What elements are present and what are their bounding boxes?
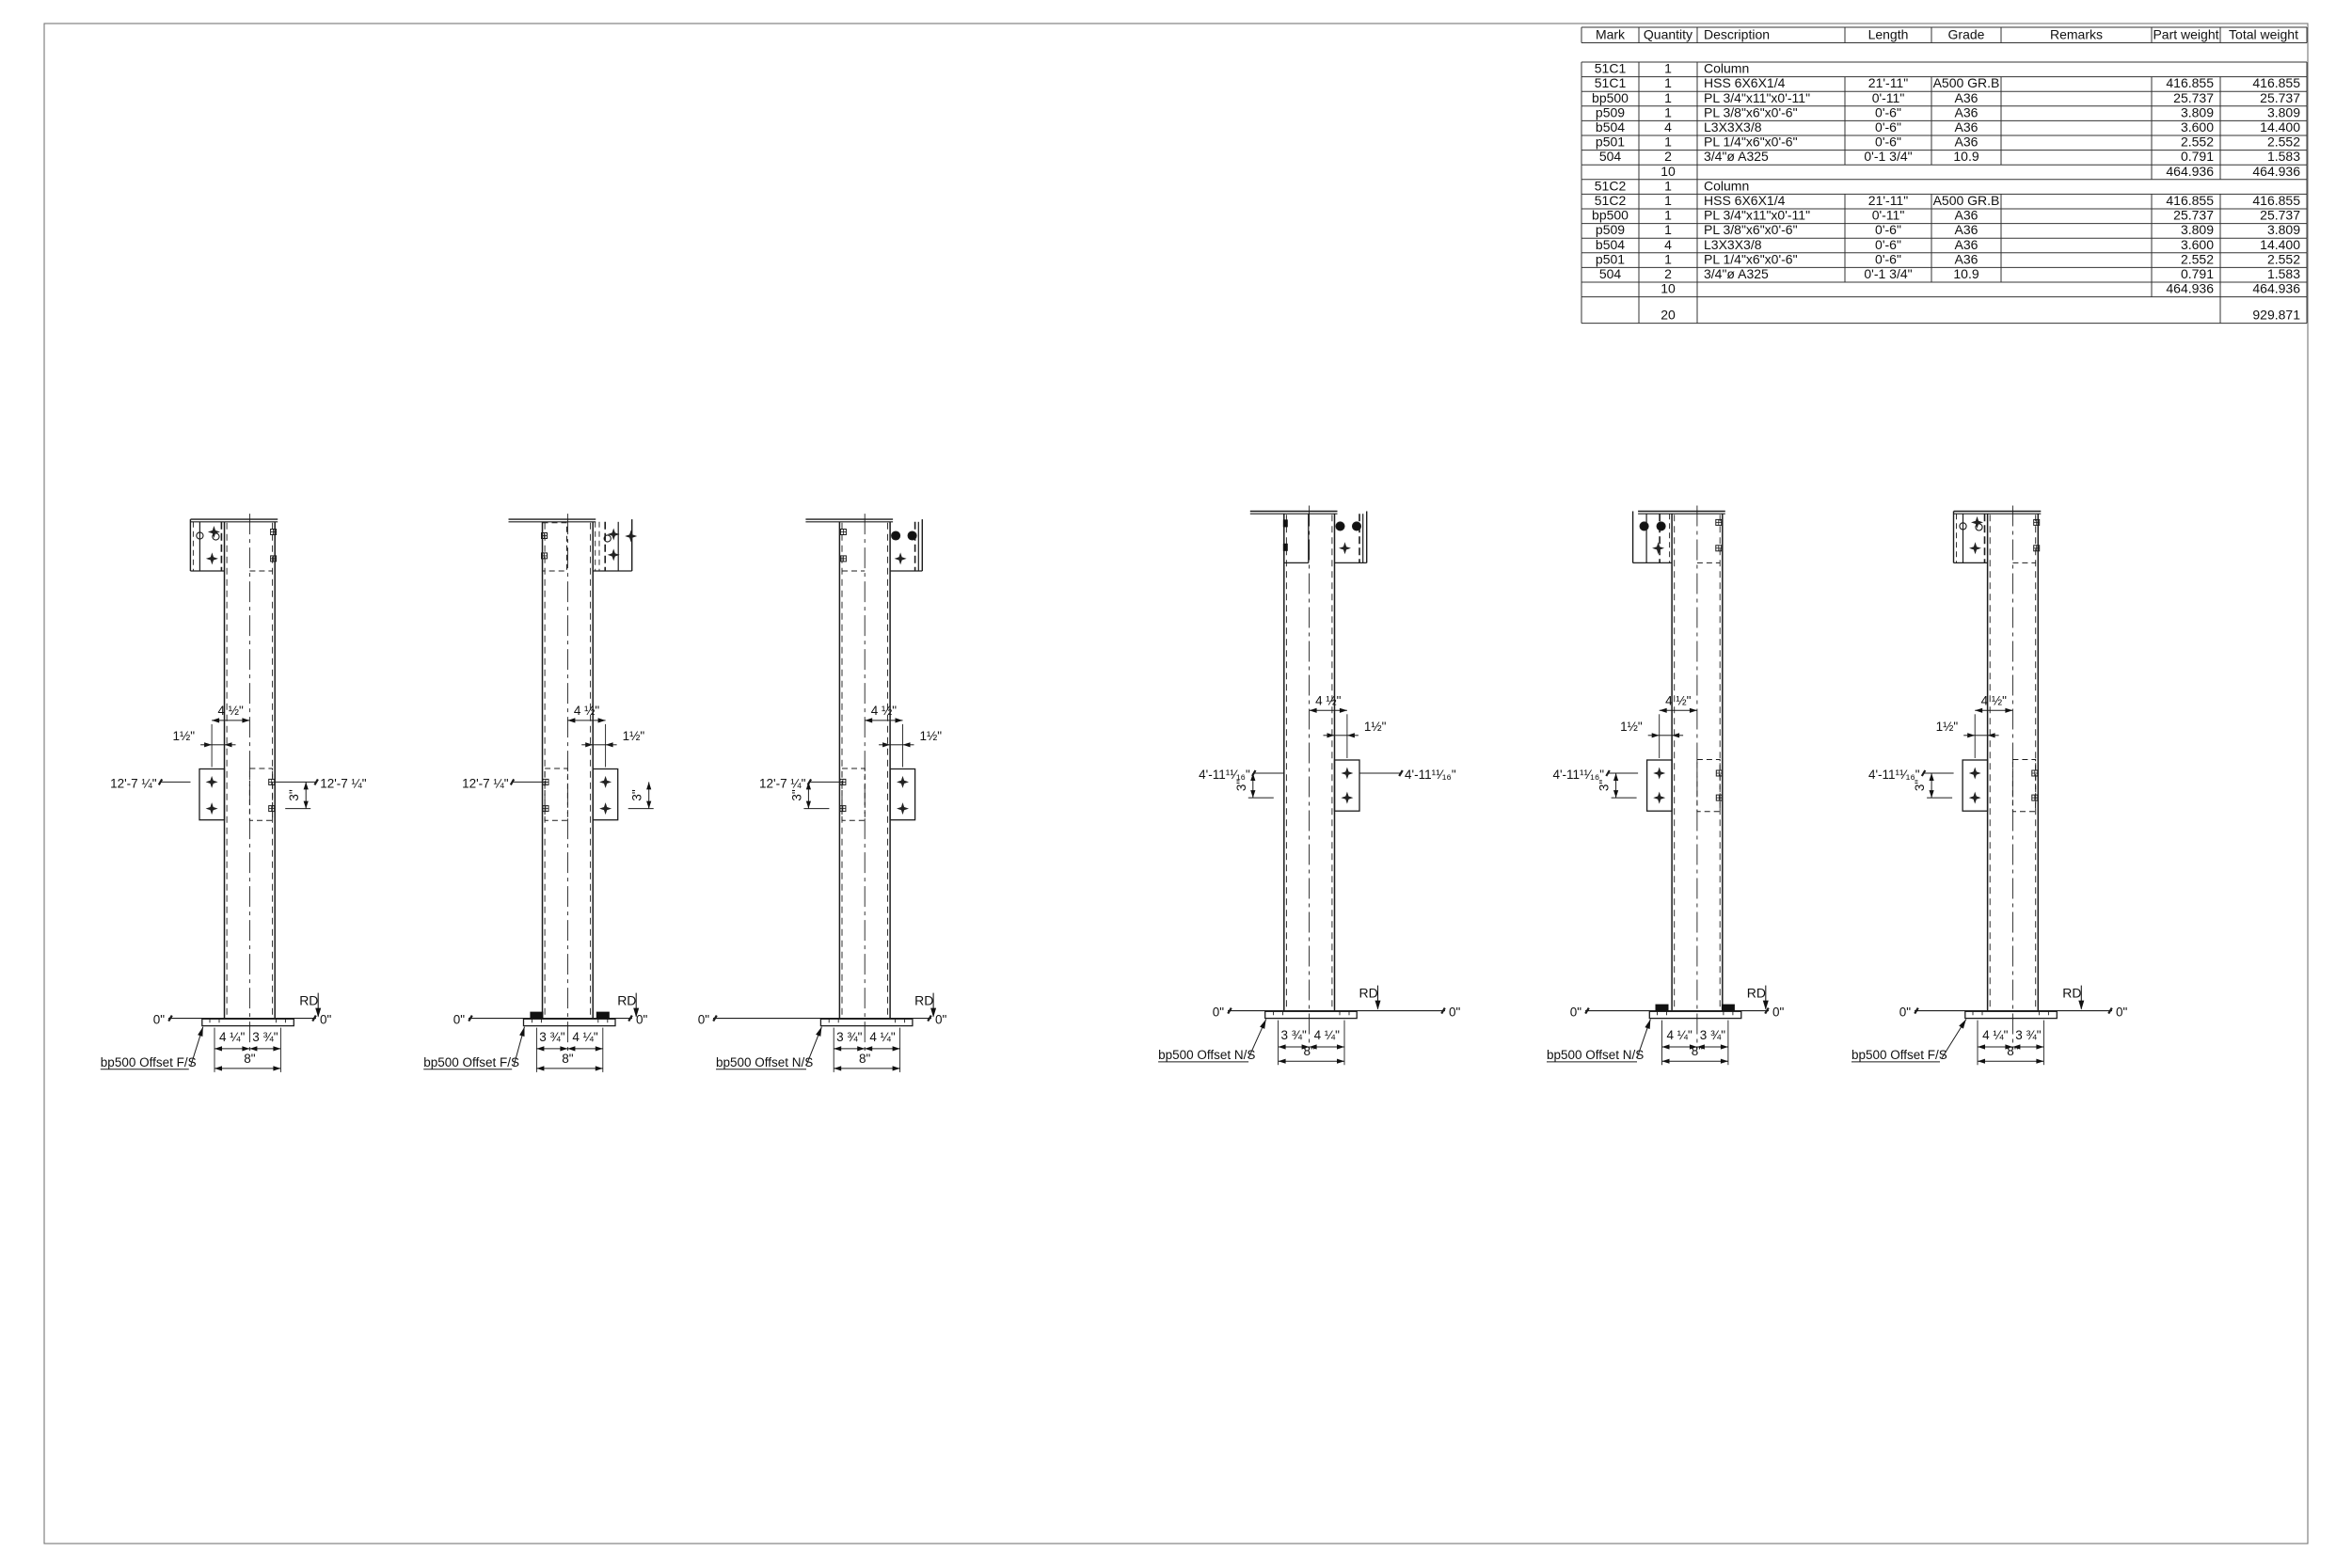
svg-text:RD: RD	[1359, 986, 1378, 1001]
svg-text:4'-11¹¹⁄₁₆": 4'-11¹¹⁄₁₆"	[1868, 768, 1920, 782]
svg-text:bp500: bp500	[1592, 208, 1629, 223]
svg-text:bp500 Offset N/S: bp500 Offset N/S	[716, 1055, 813, 1069]
svg-text:4 ½": 4 ½"	[1981, 693, 2008, 707]
svg-text:12'-7 ¼": 12'-7 ¼"	[320, 776, 367, 790]
svg-text:A36: A36	[1955, 222, 1979, 237]
svg-text:1: 1	[1664, 61, 1672, 76]
svg-text:14.400: 14.400	[2260, 237, 2300, 252]
svg-text:51C1: 51C1	[1595, 61, 1627, 76]
svg-text:51C2: 51C2	[1595, 178, 1627, 193]
column centerline	[2011, 506, 2013, 1049]
column centerline	[248, 514, 250, 1056]
svg-text:Remarks: Remarks	[2050, 27, 2103, 42]
svg-text:0.791: 0.791	[2181, 149, 2214, 164]
svg-text:4'-11¹¹⁄₁₆": 4'-11¹¹⁄₁₆"	[1552, 768, 1604, 782]
svg-text:A36: A36	[1955, 208, 1979, 223]
svg-text:p509: p509	[1596, 222, 1625, 237]
svg-text:PL 3/8"x6"x0'-6": PL 3/8"x6"x0'-6"	[1704, 104, 1798, 119]
svg-text:Length: Length	[1868, 27, 1909, 42]
svg-text:0": 0"	[636, 1013, 648, 1027]
svg-text:1½": 1½"	[623, 729, 645, 743]
svg-text:Quantity: Quantity	[1644, 27, 1692, 42]
svg-text:4 ½": 4 ½"	[1665, 693, 1692, 707]
b504 mid connection plates (51C2 South view (1 x South))	[1963, 760, 1988, 811]
svg-text:L3X3X3/8: L3X3X3/8	[1704, 119, 1762, 135]
svg-text:3": 3"	[789, 789, 803, 801]
svg-text:2.552: 2.552	[2181, 135, 2214, 150]
b504 mid connection plates (51C2 North view (1 x North))	[1335, 760, 1360, 811]
svg-text:3.809: 3.809	[2181, 222, 2214, 237]
svg-text:bp500 Offset F/S: bp500 Offset F/S	[423, 1055, 519, 1069]
svg-text:RD: RD	[617, 993, 636, 1008]
svg-text:Grade: Grade	[1948, 27, 1985, 42]
svg-text:1: 1	[1664, 222, 1672, 237]
svg-text:1.583: 1.583	[2267, 149, 2300, 164]
svg-text:3 ¾": 3 ¾"	[836, 1030, 863, 1044]
dimension 3" mid	[807, 782, 809, 808]
svg-text:RD: RD	[2062, 986, 2081, 1001]
svg-text:p509: p509	[1596, 104, 1625, 119]
p501 cap plate edge	[1638, 511, 1725, 513]
svg-text:416.855: 416.855	[2252, 193, 2300, 208]
dimension 1 1/2" mid	[890, 744, 902, 746]
dimension 4 1/2" mid	[1310, 709, 1347, 711]
svg-text:PL 1/4"x6"x0'-6": PL 1/4"x6"x0'-6"	[1704, 135, 1798, 150]
svg-text:A500 GR.B: A500 GR.B	[1933, 75, 2000, 90]
base plate dimensions	[1977, 1021, 1979, 1066]
svg-text:bp500 Offset F/S: bp500 Offset F/S	[101, 1055, 197, 1069]
svg-text:0": 0"	[2116, 1006, 2128, 1020]
column centerline	[566, 514, 568, 1056]
b504 mid connection plates (51C1 West view (1 x West))	[593, 769, 618, 820]
svg-text:464.936: 464.936	[2166, 164, 2214, 179]
svg-text:12'-7 ¼": 12'-7 ¼"	[759, 776, 806, 790]
svg-text:4: 4	[1664, 119, 1672, 135]
svg-text:Column: Column	[1704, 61, 1749, 76]
svg-text:20: 20	[1661, 308, 1676, 323]
base plate dimensions	[1661, 1021, 1663, 1066]
b504 / p509 top connection plates (51C2 South view (1 x South))	[1953, 512, 1955, 563]
dimension 3" mid	[1615, 773, 1617, 798]
svg-text:4 ½": 4 ½"	[871, 704, 898, 718]
bp500 base plate (51C2 West view (1 x West))	[1585, 1010, 1769, 1012]
svg-text:A36: A36	[1955, 119, 1979, 135]
svg-text:8": 8"	[562, 1052, 574, 1066]
dimension 1 1/2" mid	[212, 744, 224, 746]
column 51C2 West view (1 x West) HSS 6X6X1/4 elevation	[1671, 514, 1673, 1010]
svg-text:1: 1	[1664, 251, 1672, 266]
svg-text:A36: A36	[1955, 251, 1979, 266]
svg-text:4 ½": 4 ½"	[1315, 693, 1342, 707]
b504 mid connection plates (51C2 West view (1 x West))	[1647, 760, 1673, 811]
dimension 4 1/2" mid	[1975, 709, 2012, 711]
elevation label mid left	[161, 781, 191, 783]
svg-text:RD: RD	[1747, 986, 1766, 1001]
svg-text:1: 1	[1664, 90, 1672, 105]
b504 mid connection plates (51C1 North view (1 x North))	[199, 769, 225, 820]
p501 cap plate edge	[805, 518, 893, 520]
svg-text:p501: p501	[1596, 251, 1625, 266]
svg-text:p501: p501	[1596, 135, 1625, 150]
svg-text:0'-6": 0'-6"	[1875, 135, 1901, 150]
svg-text:10: 10	[1661, 164, 1676, 179]
svg-text:0'-6": 0'-6"	[1875, 222, 1901, 237]
svg-text:RD: RD	[299, 993, 318, 1008]
svg-text:1: 1	[1664, 193, 1672, 208]
svg-text:416.855: 416.855	[2166, 193, 2214, 208]
svg-text:3": 3"	[1913, 780, 1927, 792]
bp500 base plate (51C1 South view (1 x South))	[713, 1018, 931, 1020]
svg-text:0'-11": 0'-11"	[1872, 90, 1905, 105]
svg-text:464.936: 464.936	[2252, 164, 2300, 179]
svg-text:HSS 6X6X1/4: HSS 6X6X1/4	[1704, 75, 1786, 90]
dimension 3" mid	[1931, 773, 1932, 798]
svg-text:3 ¾": 3 ¾"	[252, 1030, 278, 1044]
column 51C1 South view (1 x South) HSS 6X6X1/4 elevation	[838, 522, 840, 1019]
svg-text:3": 3"	[1234, 780, 1248, 792]
svg-text:A36: A36	[1955, 104, 1979, 119]
svg-text:2: 2	[1664, 266, 1672, 281]
svg-text:Description: Description	[1704, 27, 1770, 42]
svg-text:3.600: 3.600	[2181, 237, 2214, 252]
svg-text:25.737: 25.737	[2173, 208, 2214, 223]
svg-text:4 ¼": 4 ¼"	[219, 1030, 246, 1044]
svg-text:A500 GR.B: A500 GR.B	[1933, 193, 2000, 208]
svg-text:51C1: 51C1	[1595, 75, 1627, 90]
svg-text:bp500 Offset N/S: bp500 Offset N/S	[1547, 1048, 1644, 1062]
svg-text:A36: A36	[1955, 135, 1979, 150]
elevation label mid left	[1254, 772, 1284, 774]
svg-text:1: 1	[1664, 178, 1672, 193]
svg-text:3.809: 3.809	[2267, 104, 2300, 119]
bp500 base plate (51C2 North view (1 x North))	[1228, 1010, 1445, 1012]
dimension 4 1/2" mid	[212, 720, 249, 721]
svg-text:PL 3/4"x11"x0'-11": PL 3/4"x11"x0'-11"	[1704, 208, 1810, 223]
dimension 1 1/2" mid	[1660, 735, 1672, 736]
svg-text:8": 8"	[1303, 1044, 1315, 1058]
elevation label mid left	[1608, 772, 1638, 774]
svg-text:1½": 1½"	[1364, 720, 1387, 734]
svg-text:12'-7 ¼": 12'-7 ¼"	[462, 776, 509, 790]
svg-text:PL 3/4"x11"x0'-11": PL 3/4"x11"x0'-11"	[1704, 90, 1810, 105]
column centerline	[1696, 506, 1698, 1049]
svg-text:0'-6": 0'-6"	[1875, 119, 1901, 135]
svg-text:b504: b504	[1596, 237, 1625, 252]
svg-text:464.936: 464.936	[2166, 281, 2214, 296]
svg-text:2.552: 2.552	[2267, 251, 2300, 266]
svg-text:2.552: 2.552	[2267, 135, 2300, 150]
column 51C1 North view (1 x North) HSS 6X6X1/4 elevation	[224, 522, 226, 1019]
base plate dimensions	[535, 1028, 537, 1072]
svg-text:3": 3"	[287, 789, 301, 801]
b504 / p509 top connection plates (51C2 West view (1 x West))	[1632, 512, 1634, 563]
svg-text:1½": 1½"	[920, 729, 943, 743]
svg-text:0'-6": 0'-6"	[1875, 251, 1901, 266]
svg-text:464.936: 464.936	[2252, 281, 2300, 296]
svg-text:25.737: 25.737	[2260, 90, 2300, 105]
svg-text:3 ¾": 3 ¾"	[1280, 1028, 1307, 1042]
dimension 4 1/2" mid	[865, 720, 902, 721]
column centerline	[1309, 506, 1311, 1049]
svg-text:3 ¾": 3 ¾"	[2015, 1028, 2042, 1042]
svg-text:bp500 Offset N/S: bp500 Offset N/S	[1158, 1048, 1255, 1062]
svg-text:4'-11¹¹⁄₁₆": 4'-11¹¹⁄₁₆"	[1199, 768, 1250, 782]
column 51C2 North view (1 x North) HSS 6X6X1/4 elevation	[1283, 514, 1285, 1010]
column 51C1 West view (1 x West) HSS 6X6X1/4 elevation	[542, 522, 544, 1019]
b504 / p509 top connection plates (51C1 West view (1 x West))	[543, 523, 567, 571]
b504 / p509 top connection plates (51C2 North view (1 x North))	[1308, 514, 1310, 562]
svg-text:0": 0"	[1772, 1006, 1785, 1020]
svg-text:3.600: 3.600	[2181, 119, 2214, 135]
p501 cap plate edge	[1250, 511, 1338, 513]
svg-text:1: 1	[1664, 75, 1672, 90]
svg-text:3": 3"	[1597, 780, 1612, 792]
svg-text:4 ¼": 4 ¼"	[1982, 1028, 2009, 1042]
svg-text:3/4"ø A325: 3/4"ø A325	[1704, 266, 1769, 281]
svg-text:3/4"ø A325: 3/4"ø A325	[1704, 149, 1769, 164]
svg-text:10.9: 10.9	[1953, 149, 1979, 164]
svg-text:0": 0"	[153, 1013, 166, 1027]
svg-text:416.855: 416.855	[2166, 75, 2214, 90]
p501 cap plate edge	[191, 518, 278, 520]
svg-text:416.855: 416.855	[2252, 75, 2300, 90]
bill of materials table	[1581, 26, 2307, 28]
elevation label mid right	[275, 781, 316, 783]
dimension 1 1/2" mid	[593, 744, 605, 746]
svg-text:3.809: 3.809	[2181, 104, 2214, 119]
svg-text:8": 8"	[244, 1052, 256, 1066]
b504 mid connection plates (51C1 South view (1 x South))	[890, 769, 915, 820]
elevation label mid left	[513, 781, 543, 783]
p501 cap plate edge	[509, 518, 596, 520]
svg-text:4'-11¹¹⁄₁₆": 4'-11¹¹⁄₁₆"	[1405, 768, 1456, 782]
svg-text:14.400: 14.400	[2260, 119, 2300, 135]
base plate dimensions	[833, 1028, 834, 1072]
svg-text:4: 4	[1664, 237, 1672, 252]
svg-text:L3X3X3/8: L3X3X3/8	[1704, 237, 1762, 252]
svg-text:0": 0"	[935, 1013, 947, 1027]
svg-text:2: 2	[1664, 149, 1672, 164]
svg-text:0": 0"	[1570, 1006, 1582, 1020]
column centerline	[864, 514, 866, 1056]
svg-text:0": 0"	[453, 1013, 466, 1027]
bp500 base plate (51C2 South view (1 x South))	[1915, 1010, 2112, 1012]
base plate dimensions	[1278, 1021, 1279, 1066]
svg-text:25.737: 25.737	[2173, 90, 2214, 105]
svg-text:0": 0"	[320, 1013, 332, 1027]
dimension 1 1/2" mid	[1975, 735, 1987, 736]
svg-text:10: 10	[1661, 281, 1676, 296]
svg-text:51C2: 51C2	[1595, 193, 1627, 208]
svg-text:3": 3"	[630, 789, 644, 801]
svg-text:2.552: 2.552	[2181, 251, 2214, 266]
svg-text:4 ¼": 4 ¼"	[1314, 1028, 1341, 1042]
svg-text:0.791: 0.791	[2181, 266, 2214, 281]
svg-text:3 ¾": 3 ¾"	[539, 1030, 565, 1044]
svg-text:0'-6": 0'-6"	[1875, 237, 1901, 252]
svg-text:3.809: 3.809	[2267, 222, 2300, 237]
dimension 3" mid	[305, 782, 307, 808]
p501 cap plate edge	[1954, 511, 2042, 513]
svg-text:0": 0"	[1213, 1006, 1225, 1020]
svg-text:4 ½": 4 ½"	[218, 704, 245, 718]
base plate dimensions	[214, 1028, 215, 1072]
dimension 3" mid	[1252, 773, 1254, 798]
svg-text:1: 1	[1664, 135, 1672, 150]
svg-text:bp500 Offset F/S: bp500 Offset F/S	[1851, 1048, 1947, 1062]
svg-text:0'-1 3/4": 0'-1 3/4"	[1864, 266, 1912, 281]
svg-text:1½": 1½"	[1936, 720, 1959, 734]
svg-text:929.871: 929.871	[2252, 308, 2300, 323]
svg-text:4 ¼": 4 ¼"	[869, 1030, 896, 1044]
svg-text:12'-7 ¼": 12'-7 ¼"	[110, 776, 157, 790]
svg-text:bp500: bp500	[1592, 90, 1629, 105]
bp500 base plate (51C1 West view (1 x West))	[469, 1018, 632, 1020]
svg-text:A36: A36	[1955, 90, 1979, 105]
elevation label mid right	[1359, 772, 1401, 774]
svg-text:PL 3/8"x6"x0'-6": PL 3/8"x6"x0'-6"	[1704, 222, 1798, 237]
svg-text:1: 1	[1664, 208, 1672, 223]
svg-text:8": 8"	[2007, 1044, 2019, 1058]
svg-text:4 ¼": 4 ¼"	[1667, 1028, 1693, 1042]
elevation label mid left	[809, 781, 839, 783]
svg-text:0": 0"	[1449, 1006, 1461, 1020]
svg-text:504: 504	[1599, 149, 1622, 164]
svg-text:1.583: 1.583	[2267, 266, 2300, 281]
svg-text:Part weight: Part weight	[2153, 27, 2218, 42]
svg-text:Mark: Mark	[1596, 27, 1626, 42]
svg-text:1½": 1½"	[173, 729, 196, 743]
svg-text:Total weight: Total weight	[2229, 27, 2298, 42]
svg-text:504: 504	[1599, 266, 1622, 281]
svg-text:3 ¾": 3 ¾"	[1700, 1028, 1726, 1042]
bp500 base plate (51C1 North view (1 x North))	[168, 1018, 316, 1020]
dimension 1 1/2" mid	[1335, 735, 1347, 736]
b504 / p509 top connection plates (51C1 North view (1 x North))	[189, 519, 191, 571]
svg-text:0'-6": 0'-6"	[1875, 104, 1901, 119]
svg-text:0": 0"	[698, 1013, 710, 1027]
svg-text:0": 0"	[1899, 1006, 1912, 1020]
svg-text:RD: RD	[914, 993, 933, 1008]
svg-text:25.737: 25.737	[2260, 208, 2300, 223]
svg-text:0'-1 3/4": 0'-1 3/4"	[1864, 149, 1912, 164]
svg-text:10.9: 10.9	[1953, 266, 1979, 281]
svg-text:8": 8"	[1692, 1044, 1704, 1058]
svg-text:4 ½": 4 ½"	[574, 704, 600, 718]
svg-text:0'-11": 0'-11"	[1872, 208, 1905, 223]
dimension 3" mid	[648, 782, 650, 808]
svg-text:21'-11": 21'-11"	[1868, 193, 1908, 208]
svg-text:8": 8"	[859, 1052, 871, 1066]
svg-text:HSS 6X6X1/4: HSS 6X6X1/4	[1704, 193, 1786, 208]
svg-text:1: 1	[1664, 104, 1672, 119]
svg-text:Column: Column	[1704, 178, 1749, 193]
b504 / p509 top connection plates (51C1 South view (1 x South))	[842, 570, 865, 572]
dimension 4 1/2" mid	[1660, 709, 1697, 711]
svg-text:PL 1/4"x6"x0'-6": PL 1/4"x6"x0'-6"	[1704, 251, 1798, 266]
dimension 4 1/2" mid	[567, 720, 605, 721]
elevation label mid left	[1924, 772, 1954, 774]
svg-text:1½": 1½"	[1620, 720, 1643, 734]
svg-text:A36: A36	[1955, 237, 1979, 252]
column 51C2 South view (1 x South) HSS 6X6X1/4 elevation	[1987, 514, 1989, 1010]
svg-text:4 ¼": 4 ¼"	[572, 1030, 598, 1044]
svg-text:21'-11": 21'-11"	[1868, 75, 1908, 90]
svg-text:b504: b504	[1596, 119, 1625, 135]
